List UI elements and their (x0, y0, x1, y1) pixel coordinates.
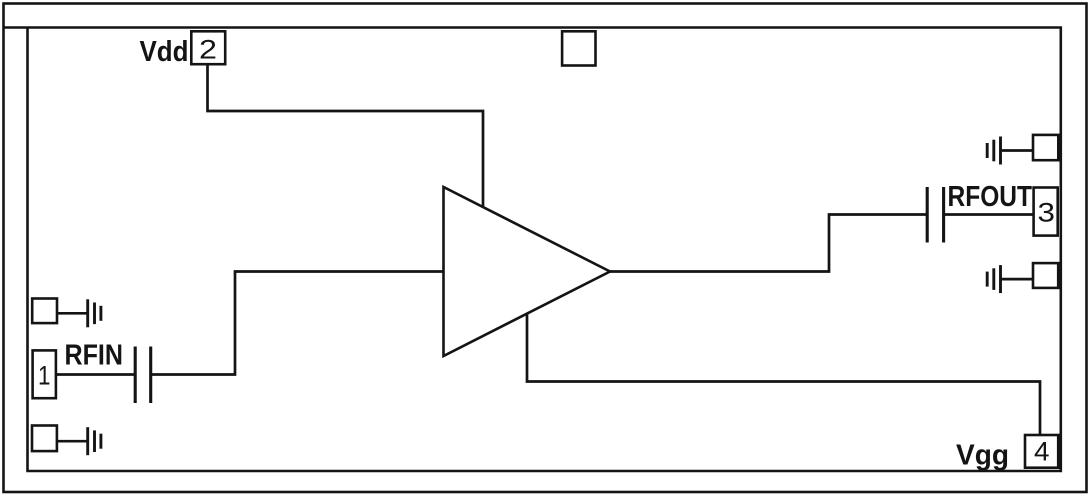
wire amplifier output to capacitor C2 (610, 215, 926, 272)
wire bypass pad lower left to ground (57, 440, 88, 443)
bypass pad upper right (1033, 135, 1058, 160)
bypass pad upper left (32, 299, 57, 324)
svg-text:Vdd: Vdd (140, 36, 189, 68)
wire amplifier bias to Vgg pin 4 (527, 314, 1040, 439)
amplifier U1 (444, 187, 611, 356)
svg-text:2: 2 (199, 34, 217, 64)
pin 3 pad (1034, 188, 1058, 236)
pin 4 pad (1025, 435, 1058, 468)
ground lower right (987, 265, 1000, 293)
wire pin 1 to capacitor C1 (57, 373, 134, 376)
bypass pad lower right (1033, 263, 1058, 288)
wire ground to bypass pad lower right (1001, 278, 1034, 281)
pin 1 pad (33, 350, 56, 398)
ground lower left (88, 427, 101, 455)
bypass pad lower left (32, 426, 57, 452)
svg-text:RFOUT: RFOUT (948, 181, 1033, 213)
svg-text:Vgg: Vgg (956, 440, 1009, 472)
svg-text:1: 1 (38, 361, 51, 391)
wire ground to bypass pad upper right (1001, 149, 1034, 152)
pin 2 pad (191, 31, 225, 64)
svg-text:3: 3 (1038, 197, 1056, 227)
capacitor C1 input DC block (135, 347, 151, 404)
wire bypass pad upper left to ground (57, 312, 88, 315)
wire Vdd pin 2 to amplifier top (208, 66, 484, 208)
ground upper left (88, 299, 101, 327)
capacitor C2 output DC block (927, 187, 943, 243)
spare pad top middle (562, 31, 595, 65)
svg-text:RFIN: RFIN (65, 340, 124, 372)
svg-text:4: 4 (1034, 437, 1050, 467)
wire capacitor C2 to pin 3 (945, 213, 1034, 216)
ground upper right (987, 137, 1000, 165)
wire capacitor C1 to amplifier input (152, 272, 443, 375)
